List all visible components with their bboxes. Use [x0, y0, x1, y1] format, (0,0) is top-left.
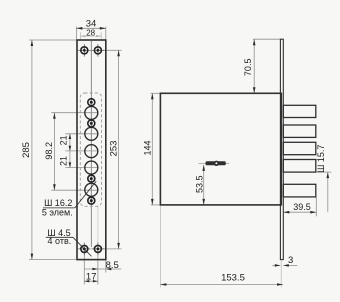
extension stub 34 left [75, 27, 77, 40]
svg-text:144: 144 [143, 140, 153, 155]
svg-text:28: 28 [86, 28, 95, 37]
extension line bolt tip (39.5) [315, 197, 317, 216]
extension stub 28 left [79, 32, 81, 39]
svg-text:70.5: 70.5 [243, 59, 253, 77]
extension line body top (144) [151, 92, 160, 94]
svg-text:98.2: 98.2 [44, 142, 54, 160]
label diameter 4.5, 4 holes [46, 228, 92, 257]
svg-text:153.5: 153.5 [221, 273, 245, 284]
dimension 34 [76, 18, 105, 29]
bolt hole 5 [85, 183, 98, 196]
extension line plate bottom (285) [29, 259, 76, 261]
dimension 98.2 [44, 113, 56, 191]
dimension diameter 15.7 [316, 145, 329, 212]
bolt 1 [283, 105, 316, 117]
dimension 28 (light) [80, 28, 101, 37]
bolt hole 3 [85, 145, 98, 158]
screw hole top-right [92, 44, 105, 57]
dimension 253 [108, 50, 120, 249]
bolt 4 [283, 160, 316, 173]
svg-text:39.5: 39.5 [293, 202, 311, 212]
bolt hole 4 [85, 161, 98, 174]
svg-text:Ш 15.7: Ш 15.7 [316, 145, 326, 173]
screw hole bottom-left [78, 243, 91, 256]
bolt hole 2 [85, 127, 98, 140]
svg-text:285: 285 [21, 142, 32, 158]
extension line bolt4 top (15.7) [317, 159, 325, 161]
extension line hole5 (98.2 bottom) [51, 189, 97, 191]
dimension 8.5 [85, 260, 122, 271]
hidden lock case (dashed) [80, 93, 101, 206]
plate center line [90, 41, 92, 247]
svg-text:8.5: 8.5 [106, 260, 119, 271]
extension line bottom screw (253 bottom) [103, 248, 122, 250]
svg-text:5 элем.: 5 элем. [42, 207, 73, 217]
rivet 1 [88, 99, 95, 106]
dimension 39.5 [283, 202, 316, 213]
faint screw axis line [97, 206, 99, 245]
dimension 70.5 [243, 39, 256, 93]
extension line hole2 [65, 133, 97, 135]
dimension 285 [21, 40, 33, 260]
dimension 3 [272, 255, 297, 267]
keyhole [206, 161, 226, 166]
svg-text:3: 3 [288, 255, 293, 266]
rivet 2 [88, 120, 95, 127]
extension line plate right edge (8.5) [105, 260, 107, 272]
extension line bottom-right screw (17 / 8.5) [97, 253, 99, 285]
bolt 2 [283, 125, 316, 137]
extension line plate top (285) [29, 39, 76, 41]
dimension 21 lower [58, 151, 71, 168]
bolt hole 1 [85, 106, 98, 119]
extension stub 28 right [100, 32, 102, 39]
svg-text:17: 17 [86, 272, 97, 283]
rivet 4 [88, 197, 95, 204]
dimension 144 [143, 93, 154, 205]
label diameter 16.2, 5 elements [42, 181, 96, 217]
dimension 21 upper [58, 134, 71, 151]
rivet 3 [88, 175, 95, 182]
screw hole top-left [78, 44, 91, 57]
svg-text:53.5: 53.5 [195, 175, 205, 193]
extension line faceplate down (153.5 right / 3) [280, 260, 282, 287]
extension line bolt4 bottom (15.7) [317, 171, 332, 173]
dimension 53.5 [195, 165, 205, 205]
bolt 3 [283, 142, 316, 154]
screw hole bottom-right [92, 243, 105, 256]
faceplate [280, 39, 283, 259]
extension line hole3 [65, 150, 97, 152]
extension line body left edge down (153.5) [159, 206, 161, 287]
dimension 17 [84, 272, 98, 283]
svg-text:21: 21 [58, 135, 68, 145]
bolt 5 [283, 184, 316, 197]
keyhole axis line [199, 162, 230, 164]
extension line hole1 (98.2 top) [51, 112, 97, 114]
svg-text:4 отв.: 4 отв. [48, 236, 72, 246]
extension line top screw (253 top) [103, 49, 122, 51]
svg-text:21: 21 [58, 156, 68, 166]
front plate outline [77, 40, 106, 260]
extension stub 34 right [105, 27, 107, 40]
lock body [160, 93, 281, 205]
svg-text:253: 253 [108, 141, 119, 157]
extension line faceplate top (70.5) [253, 38, 280, 40]
extension line bottom-left screw (17) [83, 253, 85, 285]
extension line hole4 [65, 167, 97, 169]
extension line body bottom (144/153.5) [151, 204, 160, 206]
dimension 153.5 [160, 273, 283, 286]
